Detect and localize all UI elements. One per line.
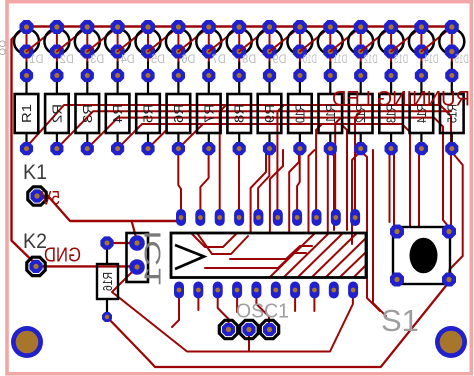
IC1 pin 15 pad bbox=[271, 282, 281, 299]
resistor R14 bbox=[410, 59, 434, 156]
wire: bus drop to IC pin 8 bbox=[316, 124, 322, 211]
LED D14 bbox=[391, 20, 438, 66]
wire: bus line 1 from R1 bbox=[25, 105, 451, 229]
IC1 pin 14 pad bbox=[290, 282, 300, 299]
resistor R6 bbox=[167, 59, 191, 156]
wire: R16 top pad to C1 top pad bbox=[107, 242, 137, 244]
wire: IC pin 18 to OSC1 left bbox=[218, 296, 229, 325]
IC1 pin 12 pad bbox=[329, 282, 339, 299]
svg-text:D2: D2 bbox=[60, 54, 74, 66]
svg-text:OSC1: OSC1 bbox=[236, 301, 289, 323]
IC1 pin 11 pad bbox=[348, 282, 358, 299]
wire: R6 pad diagonal to bus 4 bbox=[178, 124, 203, 149]
wire: R9 to IC pin 5 bbox=[258, 151, 269, 211]
svg-text:R9: R9 bbox=[262, 104, 277, 123]
svg-text:S1: S1 bbox=[381, 303, 419, 338]
wire: R13 drop bbox=[389, 151, 391, 154]
resistor R7 bbox=[197, 59, 221, 156]
LED D3 bbox=[57, 20, 104, 66]
LED D1 bbox=[14, 20, 44, 66]
wire: IC pin 16 to OSC1 right bbox=[256, 296, 269, 324]
wire: OSC1 centre pad to GND loop bbox=[248, 335, 250, 351]
silkscreen fragment left edge bbox=[0, 39, 6, 57]
wire: S1 bottom-right pad to outer loop bbox=[449, 152, 463, 276]
svg-text:R2: R2 bbox=[49, 104, 64, 123]
wire: IC internal Z trace 2 bbox=[230, 246, 312, 259]
connector K1 bbox=[23, 161, 47, 205]
wire: IC internal diagonal bundle bbox=[270, 234, 365, 277]
IC1 pin 19 pad bbox=[193, 282, 203, 299]
svg-text:D3: D3 bbox=[90, 54, 104, 66]
svg-text:RUNNING LED: RUNNING LED bbox=[332, 87, 470, 111]
LED D5 bbox=[118, 20, 165, 66]
resistor R1 bbox=[15, 59, 39, 156]
LED D13 bbox=[361, 20, 408, 66]
IC1 pin 13 pad bbox=[310, 282, 320, 299]
wire: R5 pad diagonal bbox=[148, 131, 166, 149]
IC1 pin 3 pad bbox=[215, 209, 225, 226]
svg-text:R8: R8 bbox=[232, 104, 247, 123]
wire: bundle pass-through verticals into IC1 body bbox=[251, 146, 334, 233]
net label 5V (mirrored) bbox=[41, 189, 60, 210]
wire: GND outer bottom loop bbox=[107, 280, 449, 368]
silkscreen text RUNNING LED (mirrored) bbox=[332, 87, 470, 111]
svg-text:R3: R3 bbox=[80, 104, 95, 123]
wire: IC internal chevron 1 bbox=[191, 233, 237, 247]
IC1 pin 2 pad bbox=[195, 209, 205, 226]
LED D2 bbox=[27, 20, 74, 66]
resistor R16 bbox=[97, 236, 118, 322]
svg-text:K2: K2 bbox=[23, 230, 47, 253]
svg-text:GND: GND bbox=[44, 245, 81, 267]
LED D7 bbox=[178, 20, 225, 66]
connector K2 bbox=[23, 230, 47, 276]
wire: IC pin 19 stub bbox=[197, 296, 199, 310]
wire: R7 to IC pin 2 bbox=[200, 151, 208, 211]
LED D6 bbox=[148, 20, 195, 66]
IC1 pin 20 pad bbox=[174, 282, 184, 299]
mounting hole bottom-left bbox=[11, 326, 43, 358]
resistor R11 bbox=[319, 59, 343, 156]
wire: right vertical a bbox=[341, 124, 347, 230]
svg-text:R5: R5 bbox=[141, 104, 156, 123]
wire: R14 drop to S1 bbox=[419, 151, 421, 226]
svg-text:D11: D11 bbox=[333, 54, 347, 66]
wire: 5V top rail along LED anodes bbox=[12, 27, 452, 265]
resistor R15 bbox=[440, 59, 464, 156]
IC1 pin 10 pad bbox=[350, 209, 360, 226]
resistor R12 bbox=[349, 59, 373, 156]
svg-text:D13: D13 bbox=[394, 54, 408, 66]
wire: R12 drop b bbox=[361, 151, 380, 311]
net label GND (mirrored) bbox=[44, 245, 81, 267]
IC1 pin 6 pad bbox=[273, 209, 283, 226]
svg-text:5V: 5V bbox=[41, 189, 60, 210]
wire: bus line 2 from R2 bbox=[57, 111, 451, 148]
wire: bus line 3 from R3 bbox=[87, 118, 448, 226]
svg-text:R10: R10 bbox=[292, 104, 307, 123]
wire: mid right vertical bbox=[373, 150, 386, 316]
svg-text:D14: D14 bbox=[424, 54, 438, 66]
LED D11 bbox=[300, 20, 347, 66]
LED D8 bbox=[209, 20, 256, 66]
svg-text:D5: D5 bbox=[151, 54, 165, 66]
wire: bus drop to IC pin 3 bbox=[220, 105, 226, 211]
IC1 pin 8 pad bbox=[312, 209, 322, 226]
LED D4 bbox=[87, 20, 134, 66]
wire: IC pin 13 stub bbox=[313, 296, 315, 311]
resistor R4 bbox=[106, 59, 130, 156]
wire: IC pin 14 stub bbox=[294, 296, 296, 311]
wire: bus drop to IC pin 10 bbox=[355, 111, 361, 211]
IC1 pin 9 pad bbox=[331, 209, 341, 226]
wire: R15 stub bbox=[450, 151, 453, 154]
svg-text:IC1: IC1 bbox=[140, 230, 166, 286]
wire: K1 5V feed to IC pin 1 bbox=[37, 196, 181, 221]
svg-text:D4: D4 bbox=[120, 54, 135, 66]
svg-text:R6: R6 bbox=[171, 104, 186, 123]
wire: R12 drop a bbox=[352, 151, 361, 244]
resistor R2 bbox=[45, 59, 69, 156]
wire: IC internal chevron 2 bbox=[197, 233, 248, 254]
resonator OSC1 bbox=[219, 301, 289, 339]
wire: IC pin 20 stub bbox=[172, 296, 179, 327]
LED D12 bbox=[330, 20, 377, 66]
svg-text:D12: D12 bbox=[364, 54, 378, 66]
resistor R10 bbox=[288, 59, 312, 156]
wire: S1 top-left feed bbox=[394, 150, 397, 229]
op-amp U1 / microcontroller IC1 body bbox=[140, 230, 367, 286]
IC1 pin 1 pad bbox=[176, 209, 186, 226]
LED D15 bbox=[421, 20, 468, 66]
wire: bus line 4 from R4 bbox=[118, 124, 410, 226]
svg-text:D8: D8 bbox=[242, 54, 256, 66]
wire: right vertical b bbox=[389, 150, 391, 222]
wire: bus drop to IC pin 9 bbox=[335, 118, 341, 211]
svg-text:R1: R1 bbox=[19, 104, 34, 123]
wire: R11 drop bbox=[330, 151, 334, 230]
mounting hole bottom-right bbox=[435, 326, 467, 358]
svg-text:R16: R16 bbox=[100, 272, 115, 291]
IC1 pin 5 pad bbox=[253, 209, 263, 226]
IC1 pin 4 pad bbox=[234, 209, 244, 226]
resistor R3 bbox=[76, 59, 100, 156]
switch S1 bbox=[381, 225, 456, 339]
wire: junction K1 line to C1 top pad bbox=[132, 221, 137, 241]
svg-text:R4: R4 bbox=[110, 104, 125, 123]
svg-text:D1: D1 bbox=[30, 54, 44, 66]
resistor R5 bbox=[136, 59, 160, 156]
svg-text:D10: D10 bbox=[303, 54, 317, 66]
IC1 pin 17 pad bbox=[232, 282, 242, 299]
wire: R10 to IC pin 7 bbox=[297, 151, 300, 211]
resistor R8 bbox=[227, 59, 251, 156]
svg-text:K1: K1 bbox=[23, 161, 47, 184]
IC1 pin 16 pad bbox=[251, 282, 261, 299]
svg-text:C: C bbox=[0, 47, 6, 57]
LED D10 bbox=[270, 20, 317, 66]
wire: IC pin 17 stub bbox=[236, 296, 238, 312]
wire: IC internal Z trace 1 bbox=[205, 253, 306, 268]
svg-text:D7: D7 bbox=[212, 54, 226, 66]
svg-text:R7: R7 bbox=[201, 104, 216, 123]
wire: R6 to IC pin 1 bbox=[178, 151, 181, 211]
capacitor C1 bbox=[127, 233, 149, 282]
resistor R13 bbox=[379, 59, 403, 156]
svg-text:D15: D15 bbox=[455, 54, 469, 66]
wire: GND inner loop (C1 to OSC1 region, S1) bbox=[112, 267, 353, 352]
IC1 pin 7 pad bbox=[292, 209, 302, 226]
wire: bus drop to IC pin 6 bbox=[277, 105, 284, 211]
LED D9 bbox=[239, 20, 286, 66]
svg-text:D6: D6 bbox=[181, 54, 195, 66]
wire: K2 GND line through R16 to C1 bottom pad bbox=[36, 265, 137, 267]
resistor R9 bbox=[258, 59, 282, 156]
wire: R8 to IC pin 4 bbox=[238, 151, 240, 211]
svg-text:D9: D9 bbox=[273, 54, 287, 66]
IC1 pin 18 pad bbox=[213, 282, 223, 299]
